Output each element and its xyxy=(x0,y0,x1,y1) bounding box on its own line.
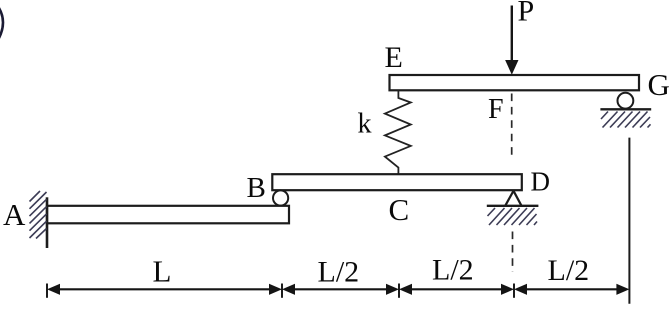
hatching at G xyxy=(601,112,651,128)
svg-text:L/2: L/2 xyxy=(432,254,474,287)
force P arrow xyxy=(506,6,518,74)
svg-text:L/2: L/2 xyxy=(318,256,360,289)
svg-text:A: A xyxy=(3,197,26,232)
dimension tick at B xyxy=(281,284,283,298)
svg-text:B: B xyxy=(247,172,266,204)
svg-text:L/2: L/2 xyxy=(548,254,590,287)
svg-text:k: k xyxy=(358,108,372,139)
spring k xyxy=(385,91,411,175)
vertical reference line below G xyxy=(628,138,630,304)
roller between B and cantilever tip xyxy=(273,190,288,205)
dimension arrow L/2 (B to spring axis) xyxy=(283,285,398,295)
svg-text:G: G xyxy=(648,67,670,102)
ground line at D xyxy=(487,205,539,207)
svg-text:P: P xyxy=(518,0,535,27)
dashed line below F (upper segment) xyxy=(511,94,513,159)
hatching at A xyxy=(30,191,47,239)
pin support at D xyxy=(505,191,521,206)
ground line at G xyxy=(600,108,651,110)
dimension tick at A xyxy=(46,284,48,298)
dimension tick at D xyxy=(513,284,515,298)
svg-text:E: E xyxy=(385,41,403,74)
hatching at D xyxy=(488,208,538,225)
beam EG (top beam) xyxy=(390,75,640,90)
beam A (bottom cantilever) xyxy=(47,206,289,224)
dimension tick at spring axis xyxy=(398,284,400,298)
dimension arrow L/2 (D to G line) xyxy=(515,285,628,295)
dimension arrow L (A to B) xyxy=(48,285,281,295)
svg-text:C: C xyxy=(389,192,410,227)
fixed support wall at A xyxy=(46,197,49,248)
svg-text:F: F xyxy=(488,94,504,125)
beam BD (middle beam) xyxy=(272,174,522,190)
partial ")" glyph top-left corner xyxy=(0,8,3,38)
svg-text:D: D xyxy=(531,166,551,196)
dashed line below F (lower segment) xyxy=(512,232,514,273)
roller support at G xyxy=(618,93,634,109)
svg-text:L: L xyxy=(153,254,172,289)
dimension arrow L/2 (spring axis to D) xyxy=(400,285,513,295)
